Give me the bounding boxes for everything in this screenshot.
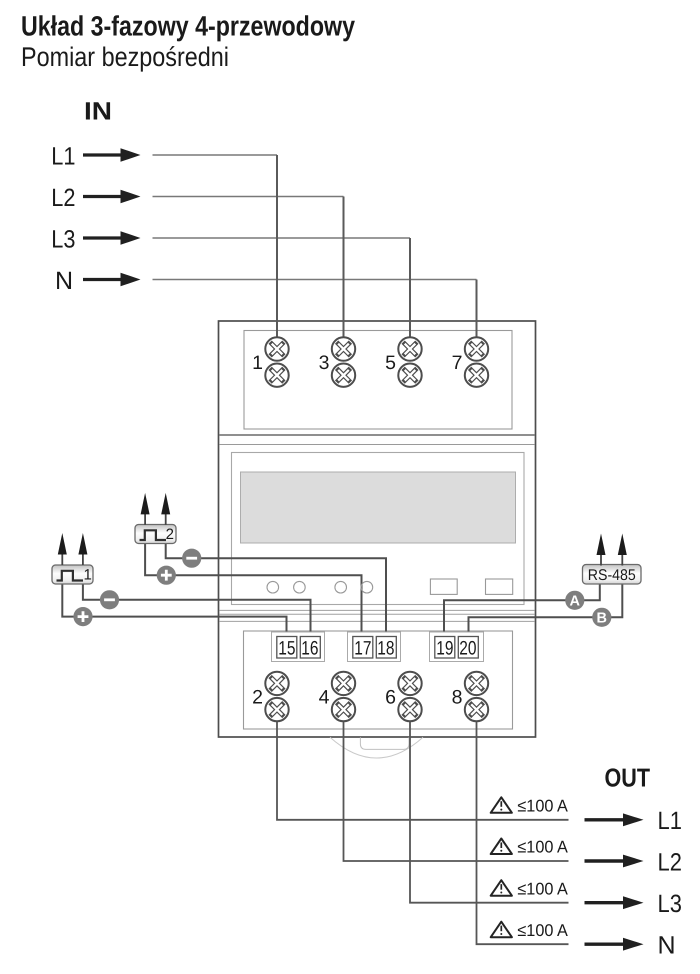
svg-text:N: N [658, 932, 676, 960]
svg-text:18: 18 [377, 638, 394, 660]
svg-text:L2: L2 [51, 184, 75, 212]
svg-text:L1: L1 [658, 807, 682, 835]
svg-text:≤100 A: ≤100 A [517, 879, 568, 898]
svg-text:15: 15 [278, 638, 295, 660]
svg-text:L1: L1 [51, 142, 75, 170]
svg-text:A: A [570, 593, 581, 609]
svg-text:Układ 3-fazowy 4-przewodowy: Układ 3-fazowy 4-przewodowy [21, 11, 355, 42]
svg-text:≤100 A: ≤100 A [517, 838, 568, 857]
svg-text:OUT: OUT [605, 763, 651, 793]
svg-text:≤100 A: ≤100 A [517, 921, 568, 940]
svg-text:8: 8 [452, 687, 463, 709]
svg-text:2: 2 [166, 526, 174, 543]
svg-text:7: 7 [452, 352, 463, 374]
svg-text:20: 20 [459, 638, 476, 660]
svg-text:B: B [597, 610, 607, 626]
svg-text:≤100 A: ≤100 A [517, 797, 568, 816]
svg-text:L3: L3 [51, 225, 75, 253]
svg-text:2: 2 [252, 687, 263, 709]
svg-text:N: N [55, 267, 73, 295]
svg-text:RS-485: RS-485 [588, 567, 636, 584]
svg-text:17: 17 [354, 638, 371, 660]
svg-text:5: 5 [385, 352, 396, 374]
svg-text:1: 1 [252, 352, 263, 374]
svg-text:L2: L2 [658, 848, 682, 876]
svg-text:6: 6 [385, 687, 396, 709]
svg-text:4: 4 [319, 687, 330, 709]
svg-text:1: 1 [84, 567, 92, 584]
svg-text:IN: IN [84, 98, 112, 126]
svg-text:L3: L3 [658, 890, 682, 918]
svg-text:16: 16 [301, 638, 318, 660]
svg-text:19: 19 [436, 638, 453, 660]
svg-text:3: 3 [319, 352, 330, 374]
svg-text:Pomiar bezpośredni: Pomiar bezpośredni [21, 42, 229, 72]
